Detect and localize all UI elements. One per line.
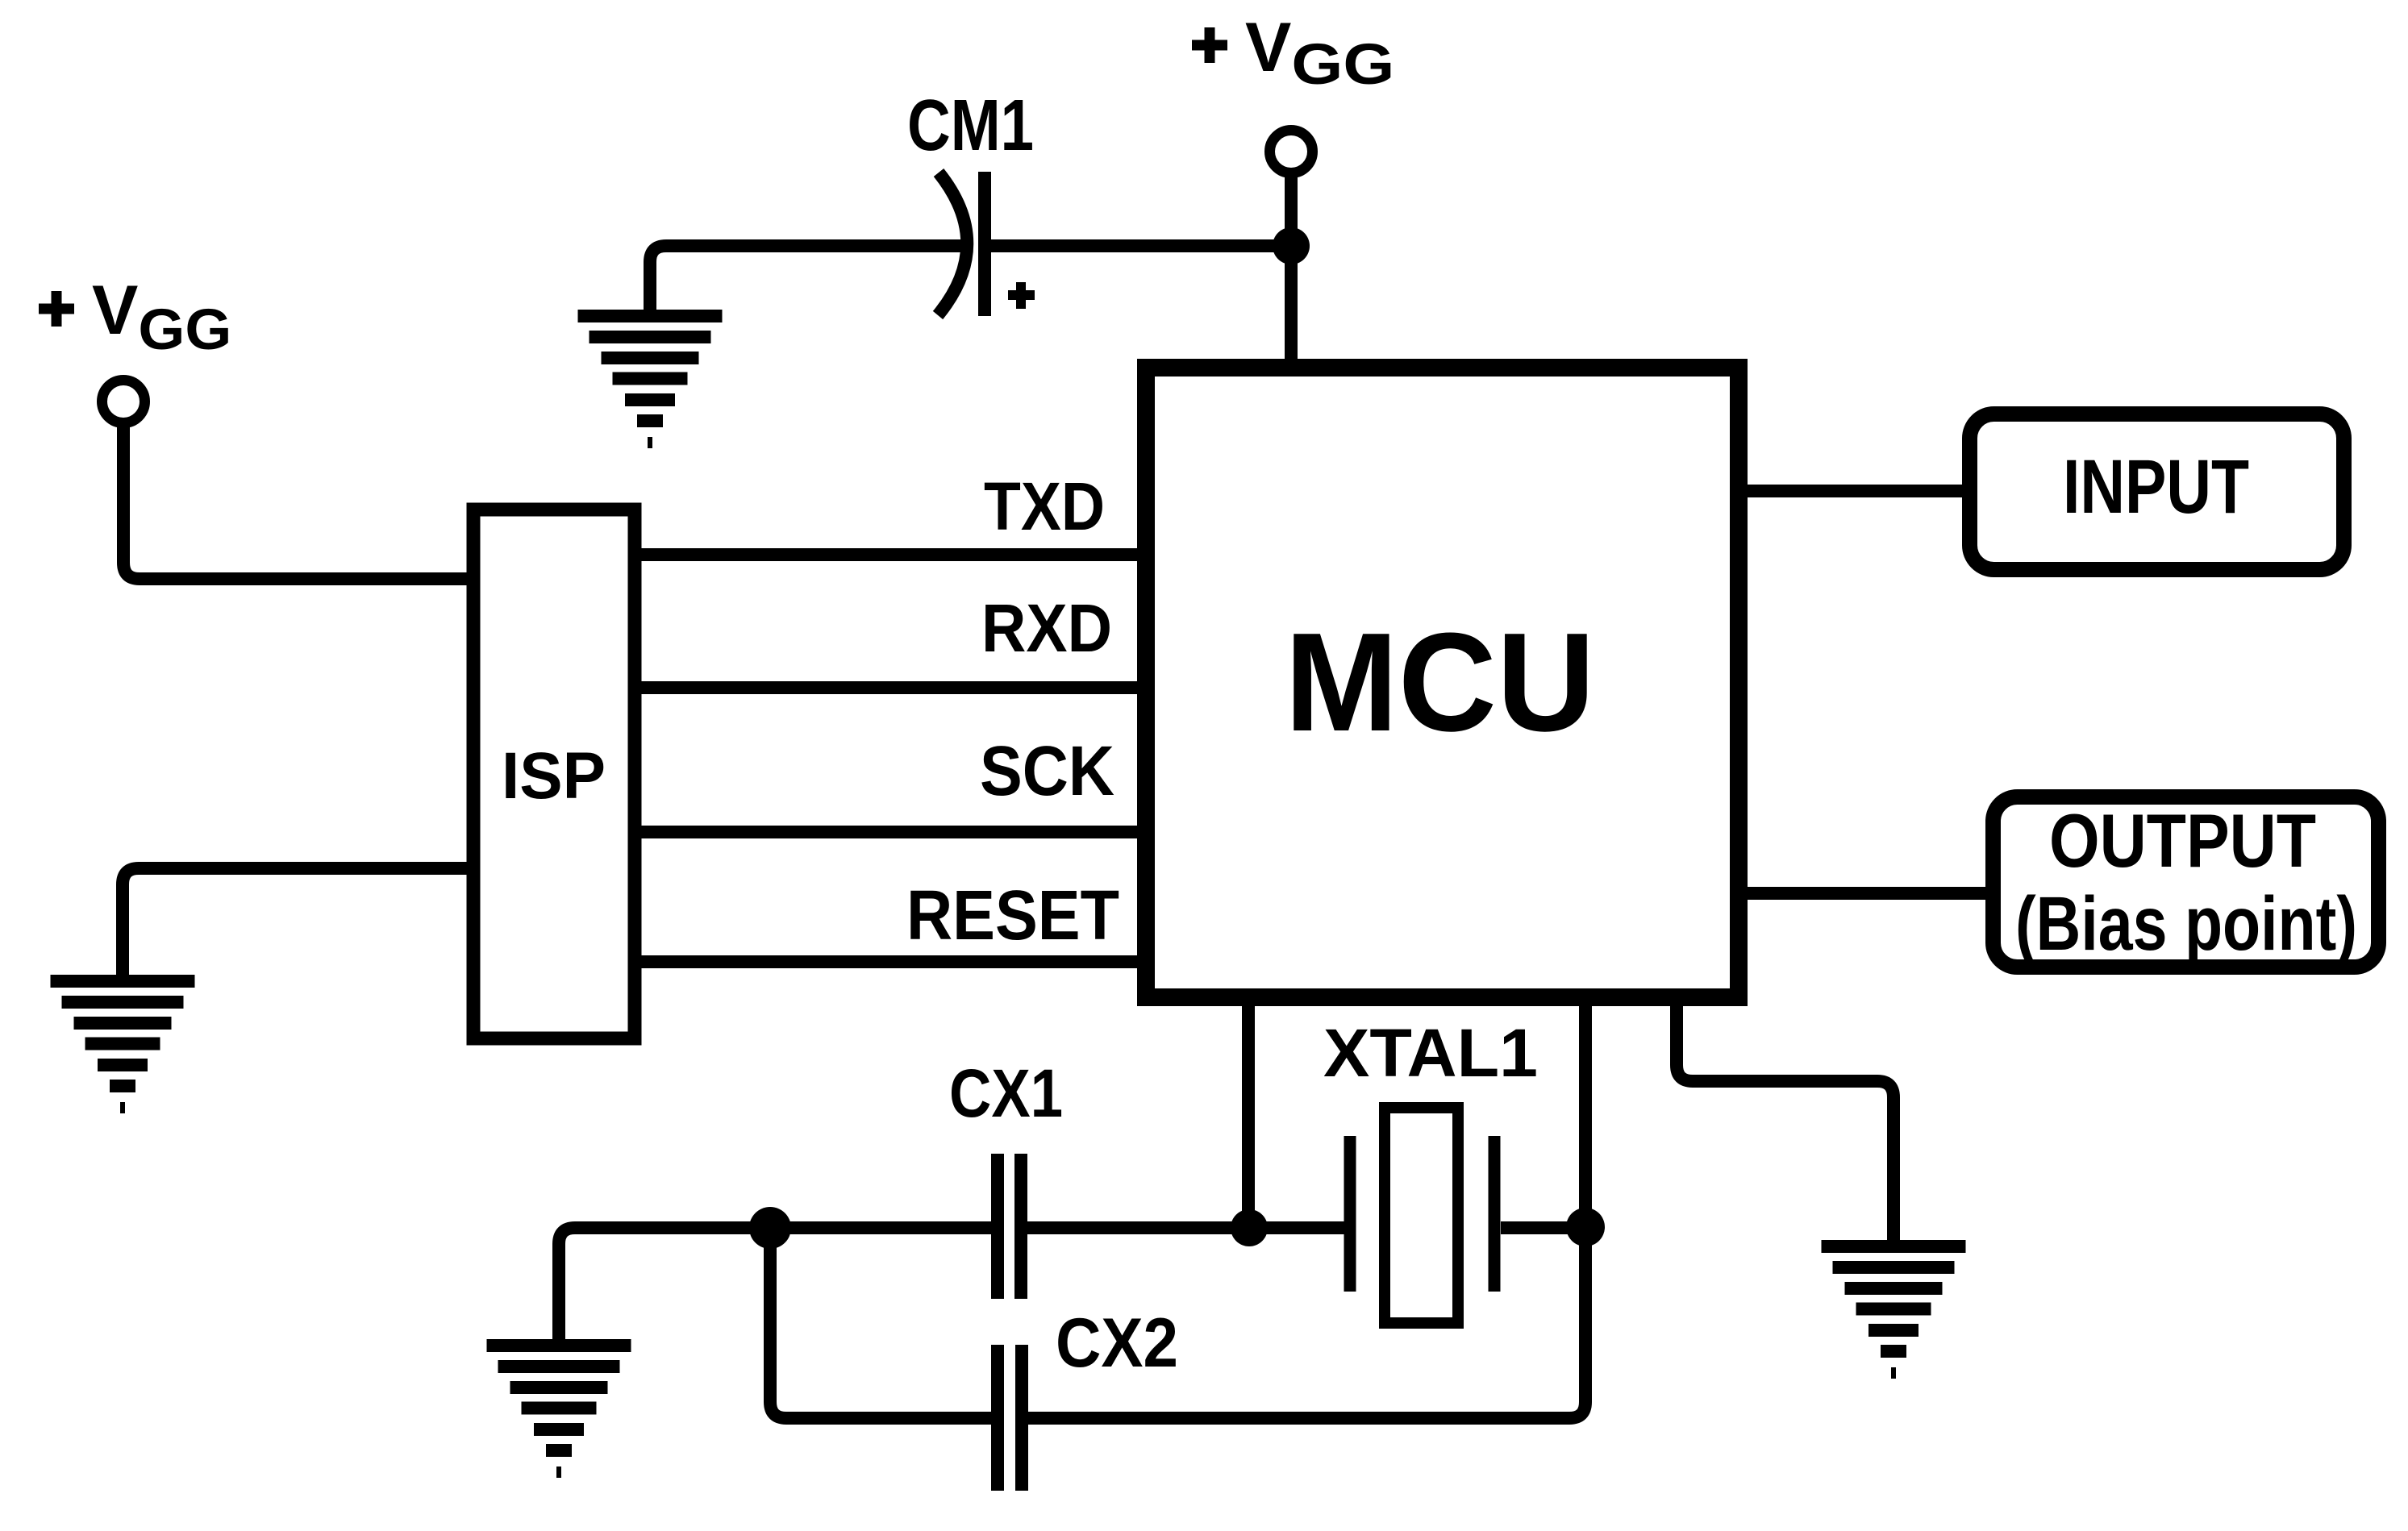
svg-text:CX1: CX1 (949, 1055, 1063, 1131)
svg-text:SCK: SCK (980, 732, 1114, 810)
svg-text:INPUT: INPUT (2063, 444, 2249, 530)
svg-text:CM1: CM1 (907, 85, 1034, 166)
svg-text:MCU: MCU (1285, 603, 1595, 760)
svg-text:CX2: CX2 (1056, 1304, 1178, 1382)
svg-text:TXD: TXD (984, 468, 1105, 544)
svg-text:XTAL1: XTAL1 (1323, 1015, 1538, 1091)
svg-text:ISP: ISP (502, 739, 606, 813)
svg-text:OUTPUT: OUTPUT (2049, 798, 2316, 883)
svg-text:RESET: RESET (906, 876, 1119, 955)
svg-text:(Bias point): (Bias point) (2015, 881, 2357, 967)
svg-text:RXD: RXD (981, 590, 1112, 666)
